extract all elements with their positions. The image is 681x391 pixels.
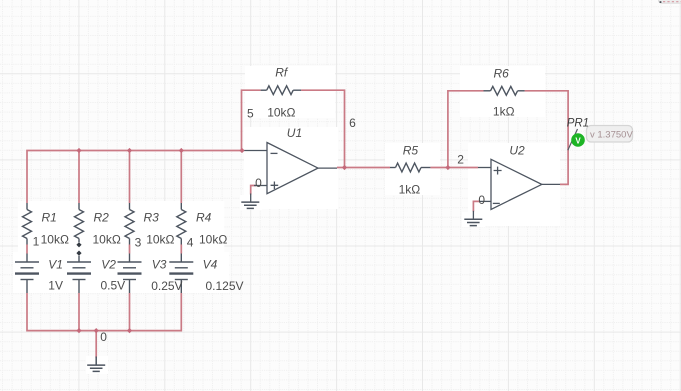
- probe tooltip v 1.3750V: [587, 126, 634, 143]
- battery V4: [180, 254, 182, 263]
- wire column net4 top: [180, 151, 182, 204]
- svg-text:10kΩ: 10kΩ: [146, 233, 174, 247]
- ground U2: [464, 219, 482, 225]
- svg-text:v 1.3750V: v 1.3750V: [590, 130, 633, 141]
- svg-text:R4: R4: [196, 211, 212, 225]
- resistor R4: [180, 203, 182, 210]
- svg-text:Rf: Rf: [275, 66, 289, 80]
- svg-text:4: 4: [187, 236, 194, 250]
- svg-text:V1: V1: [48, 258, 63, 272]
- svg-text:1kΩ: 1kΩ: [399, 183, 421, 197]
- svg-text:0: 0: [478, 193, 485, 207]
- battery V2: [78, 256, 80, 262]
- svg-text:10kΩ: 10kΩ: [199, 233, 227, 247]
- wire R6 loop: [448, 91, 568, 185]
- wire net2 to U2 plus: [448, 167, 478, 169]
- wire bottom ground bus: [27, 293, 181, 331]
- resistor R6: [484, 90, 491, 92]
- svg-text:V4: V4: [203, 258, 218, 272]
- wire U1 plus to ground: [251, 186, 256, 195]
- partial tooltip top-right corner: [659, 0, 681, 3]
- wire column net3 top: [129, 151, 131, 204]
- svg-text:0: 0: [100, 330, 107, 344]
- battery V3: [129, 254, 131, 263]
- junction node (344,168): [342, 165, 347, 170]
- svg-text:PR1: PR1: [567, 118, 589, 130]
- svg-text:U2: U2: [509, 143, 525, 157]
- svg-text:1kΩ: 1kΩ: [493, 105, 515, 119]
- svg-text:0.125V: 0.125V: [206, 279, 244, 293]
- svg-text:V: V: [575, 136, 581, 145]
- svg-text:10kΩ: 10kΩ: [41, 233, 69, 247]
- svg-text:6: 6: [349, 116, 356, 130]
- svg-text:R5: R5: [403, 144, 419, 158]
- junction node (181,150): [179, 148, 184, 153]
- wire U2 minus to ground: [473, 201, 480, 211]
- svg-text:V3: V3: [152, 258, 167, 272]
- wire Rf feedback loop: [242, 90, 345, 167]
- resistor R5: [390, 167, 396, 169]
- svg-text:V2: V2: [101, 258, 116, 272]
- junction node (130,150): [127, 148, 132, 153]
- svg-text:R1: R1: [42, 211, 57, 225]
- svg-text:R2: R2: [94, 211, 110, 225]
- wire V3 bottom: [129, 293, 131, 331]
- junction node (79,150): [76, 148, 81, 153]
- junction node (242,150): [239, 148, 244, 153]
- svg-text:5: 5: [247, 107, 254, 121]
- junction node (79,331): [76, 328, 81, 333]
- op-amp U1: [243, 143, 337, 203]
- op-amp U2: [473, 159, 560, 219]
- svg-text:3: 3: [135, 236, 142, 250]
- wire R3-V3 (net 3): [129, 245, 131, 254]
- ground bottom: [95, 357, 97, 366]
- open pin V2 top: [76, 251, 81, 256]
- junction node (448,168): [445, 165, 450, 170]
- svg-text:0.25V: 0.25V: [151, 279, 182, 293]
- svg-text:R6: R6: [494, 67, 510, 81]
- resistor R3: [129, 203, 131, 210]
- svg-text:0: 0: [255, 176, 262, 190]
- resistor R1: [26, 203, 28, 210]
- svg-text:0.5V: 0.5V: [101, 279, 126, 293]
- wire column net2 top: [78, 151, 80, 204]
- resistor R2: [78, 203, 80, 210]
- ground U1: [241, 202, 259, 208]
- wire V2 bottom: [78, 293, 80, 331]
- wire U1 output to R5: [337, 167, 448, 169]
- junction node (96,331): [94, 328, 99, 333]
- svg-text:1V: 1V: [48, 279, 63, 293]
- open pin R2 bottom: [76, 242, 81, 247]
- wire top input bus: [27, 151, 242, 204]
- wire R1-V1 (net 1): [26, 245, 28, 254]
- svg-text:R3: R3: [144, 211, 160, 225]
- svg-text:10kΩ: 10kΩ: [267, 106, 295, 120]
- svg-text:1: 1: [33, 235, 40, 249]
- wire ground stem bottom: [95, 331, 97, 358]
- svg-text:U1: U1: [287, 126, 302, 140]
- probe PR1: [568, 129, 585, 150]
- svg-text:2: 2: [457, 153, 464, 167]
- resistor Rf: [261, 89, 267, 91]
- junction node (130,331): [127, 328, 132, 333]
- battery V1: [26, 254, 28, 263]
- wire R4-V4 (net 4): [180, 245, 182, 254]
- svg-text:10kΩ: 10kΩ: [93, 233, 121, 247]
